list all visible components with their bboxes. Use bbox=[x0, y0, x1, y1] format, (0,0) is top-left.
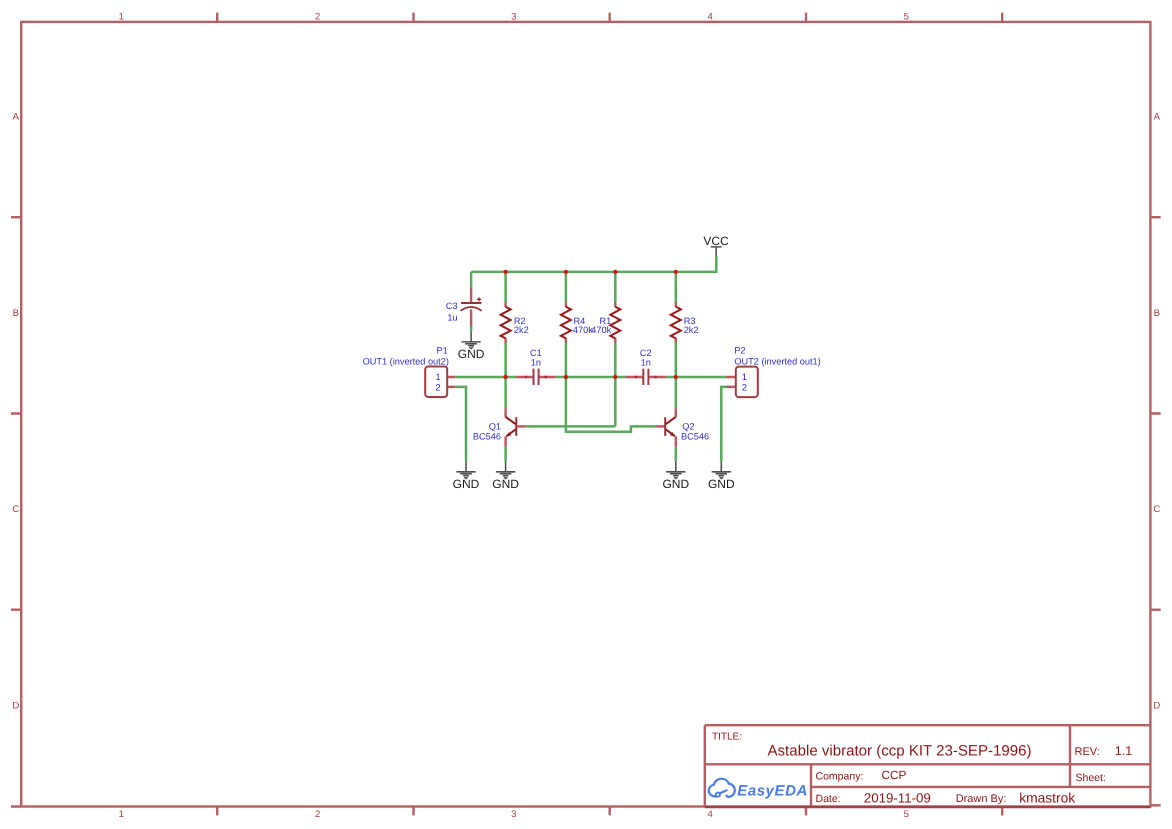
svg-text:TITLE:: TITLE: bbox=[712, 732, 742, 743]
svg-text:A: A bbox=[1154, 112, 1161, 123]
svg-text:A: A bbox=[13, 112, 20, 123]
svg-text:Q1: Q1 bbox=[489, 422, 501, 432]
svg-text:1: 1 bbox=[742, 372, 747, 382]
svg-text:D: D bbox=[12, 700, 19, 711]
svg-text:3: 3 bbox=[511, 11, 516, 22]
svg-text:GND: GND bbox=[453, 477, 480, 491]
svg-text:EasyEDA: EasyEDA bbox=[737, 782, 808, 799]
svg-text:1: 1 bbox=[435, 372, 440, 382]
svg-text:REV:: REV: bbox=[1075, 746, 1100, 758]
svg-text:BC546: BC546 bbox=[681, 432, 709, 442]
svg-text:B: B bbox=[13, 308, 19, 319]
svg-text:2k2: 2k2 bbox=[684, 325, 699, 335]
svg-text:1n: 1n bbox=[641, 357, 651, 367]
svg-text:470k: 470k bbox=[573, 325, 593, 335]
svg-text:2: 2 bbox=[742, 383, 747, 393]
svg-text:Drawn By:: Drawn By: bbox=[956, 793, 1007, 805]
svg-text:1: 1 bbox=[119, 809, 124, 820]
svg-text:5: 5 bbox=[904, 809, 909, 820]
svg-text:OUT2 (inverted out1): OUT2 (inverted out1) bbox=[734, 356, 820, 366]
svg-text:OUT1 (inverted out2): OUT1 (inverted out2) bbox=[363, 356, 449, 366]
svg-text:1.1: 1.1 bbox=[1115, 744, 1132, 758]
svg-text:Sheet:: Sheet: bbox=[1076, 772, 1106, 784]
svg-text:C: C bbox=[1153, 504, 1160, 515]
svg-text:GND: GND bbox=[492, 477, 519, 491]
svg-text:GND: GND bbox=[662, 477, 689, 491]
svg-text:CCP: CCP bbox=[882, 768, 907, 782]
svg-text:C3: C3 bbox=[446, 301, 458, 311]
svg-text:2: 2 bbox=[315, 11, 320, 22]
svg-text:1n: 1n bbox=[531, 357, 541, 367]
svg-text:BC546: BC546 bbox=[473, 432, 501, 442]
svg-text:C: C bbox=[12, 504, 19, 515]
svg-text:GND: GND bbox=[708, 477, 735, 491]
svg-text:5: 5 bbox=[904, 11, 909, 22]
svg-text:Q2: Q2 bbox=[682, 422, 694, 432]
svg-text:P1: P1 bbox=[437, 345, 448, 355]
svg-text:2: 2 bbox=[315, 809, 320, 820]
svg-text:2019-11-09: 2019-11-09 bbox=[864, 790, 931, 805]
svg-text:kmastrok: kmastrok bbox=[1019, 790, 1075, 805]
svg-text:3: 3 bbox=[511, 809, 516, 820]
svg-text:Date:: Date: bbox=[816, 793, 841, 805]
svg-text:1: 1 bbox=[119, 11, 124, 22]
svg-text:470k: 470k bbox=[591, 325, 611, 335]
svg-text:VCC: VCC bbox=[703, 234, 729, 248]
svg-text:2k2: 2k2 bbox=[514, 325, 529, 335]
svg-text:B: B bbox=[1154, 308, 1160, 319]
svg-text:P2: P2 bbox=[734, 346, 745, 356]
svg-text:D: D bbox=[1153, 700, 1160, 711]
svg-text:1u: 1u bbox=[447, 313, 457, 323]
svg-text:Company:: Company: bbox=[816, 770, 864, 782]
svg-text:2: 2 bbox=[435, 383, 440, 393]
svg-text:Astable vibrator (ccp KIT 23-S: Astable vibrator (ccp KIT 23-SEP-1996) bbox=[768, 742, 1032, 759]
svg-text:GND: GND bbox=[458, 347, 485, 361]
svg-text:4: 4 bbox=[707, 11, 712, 22]
svg-text:4: 4 bbox=[707, 809, 712, 820]
